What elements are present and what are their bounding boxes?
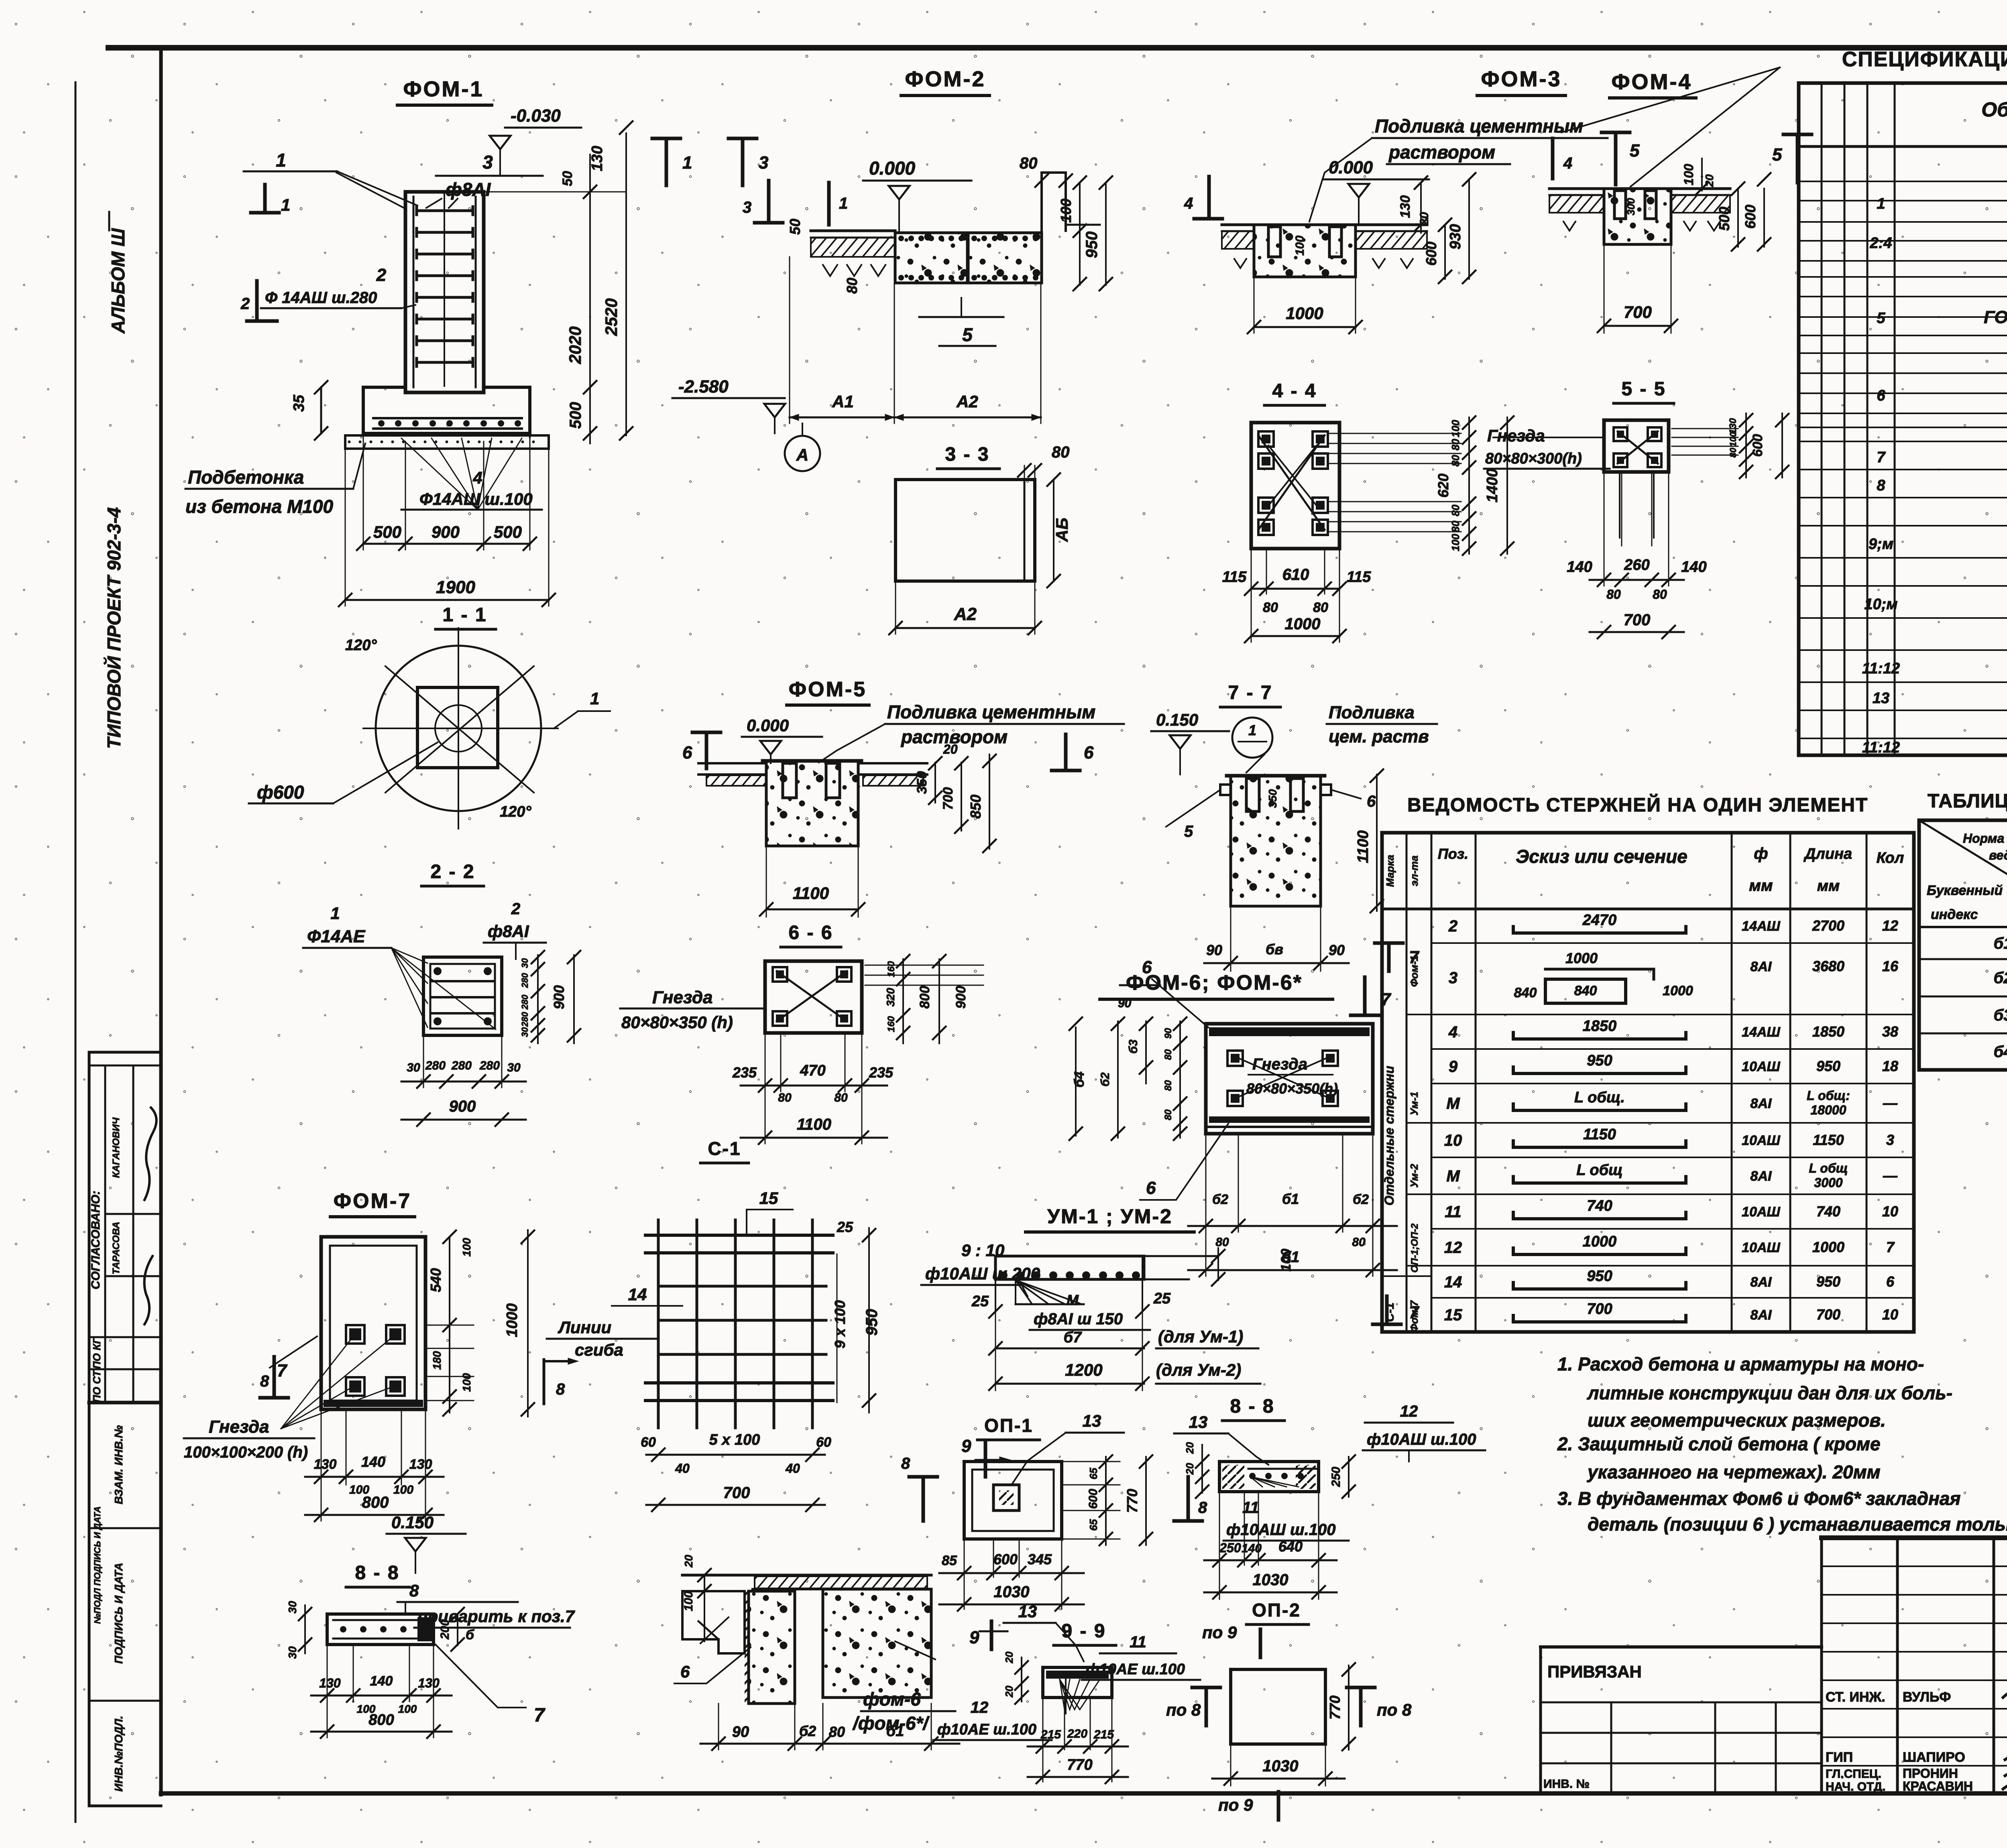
svg-text:6: 6 (682, 743, 692, 762)
svg-text:740: 740 (1587, 1197, 1612, 1214)
svg-text:90: 90 (1118, 997, 1132, 1010)
svg-text:-0.030: -0.030 (511, 106, 561, 126)
svg-text:1000: 1000 (1583, 1233, 1617, 1250)
svg-text:770: 770 (1124, 1489, 1140, 1513)
svg-text:ФОМ-5: ФОМ-5 (789, 678, 867, 701)
svg-text:2020: 2020 (566, 326, 584, 364)
svg-text:9 - 9: 9 - 9 (1061, 1620, 1106, 1642)
svg-text:3: 3 (759, 153, 768, 173)
svg-text:Обозначение: Обозначение (1981, 98, 2007, 121)
svg-text:1100: 1100 (793, 884, 829, 903)
svg-text:6: 6 (1367, 793, 1376, 810)
svg-text:КАГАНОВИЧ: КАГАНОВИЧ (111, 1117, 122, 1178)
svg-text:5: 5 (962, 324, 973, 345)
svg-text:Отдельные стержни: Отдельные стержни (1382, 1066, 1396, 1206)
svg-text:3: 3 (1449, 969, 1457, 987)
svg-text:ф10АШ ш.100: ф10АШ ш.100 (1367, 1431, 1476, 1448)
svg-text:900: 900 (551, 985, 567, 1009)
svg-text:2:4: 2:4 (1870, 235, 1892, 252)
svg-text:цем. раств: цем. раств (1329, 727, 1429, 746)
svg-text:ф10АШ ш.100: ф10АШ ш.100 (1226, 1521, 1335, 1539)
svg-text:фом-6: фом-6 (863, 1689, 921, 1710)
svg-text:215: 215 (1040, 1728, 1061, 1741)
svg-text:КРАСАВИН: КРАСАВИН (1903, 1779, 1973, 1793)
svg-text:3: 3 (1886, 1132, 1894, 1148)
svg-text:930: 930 (1447, 224, 1464, 249)
svg-text:С-1: С-1 (708, 1138, 741, 1159)
svg-text:Длина: Длина (1803, 846, 1852, 862)
svg-text:1850: 1850 (1583, 1018, 1617, 1035)
svg-text:15: 15 (1444, 1306, 1462, 1324)
svg-text:65: 65 (1087, 1519, 1099, 1531)
svg-text:L общ.: L общ. (1574, 1089, 1625, 1106)
svg-text:1000: 1000 (1285, 615, 1321, 633)
svg-text:100: 100 (1293, 236, 1307, 256)
svg-text:30: 30 (520, 1027, 530, 1037)
svg-text:950: 950 (1083, 232, 1101, 258)
svg-text:Гнезда: Гнезда (1487, 426, 1545, 445)
svg-text:10: 10 (1444, 1132, 1462, 1149)
svg-text:740: 740 (1816, 1203, 1840, 1220)
svg-text:УМ-1 ; УМ-2: УМ-1 ; УМ-2 (1047, 1205, 1172, 1228)
svg-text:220: 220 (1067, 1727, 1087, 1740)
svg-text:13: 13 (1873, 690, 1889, 707)
svg-text:б3: б3 (1993, 1006, 2007, 1024)
svg-text:5: 5 (1184, 823, 1193, 840)
svg-text:Гнезда: Гнезда (1252, 1055, 1307, 1073)
svg-text:Кол: Кол (1877, 850, 1904, 866)
svg-text:8АI: 8АI (1751, 1169, 1772, 1184)
svg-text:по 8: по 8 (1377, 1700, 1412, 1719)
svg-text:600: 600 (1423, 242, 1439, 266)
svg-text:25: 25 (971, 1293, 989, 1310)
svg-text:ГОСТ 8478 - 66: ГОСТ 8478 - 66 (1984, 307, 2007, 327)
svg-text:—: — (1883, 1167, 1898, 1184)
svg-text:25: 25 (837, 1219, 853, 1235)
svg-text:900: 900 (432, 522, 460, 541)
svg-text:260: 260 (1624, 557, 1649, 573)
svg-text:80×80×350(h): 80×80×350(h) (1246, 1080, 1338, 1097)
svg-text:4: 4 (472, 468, 482, 487)
svg-text:10АШ: 10АШ (1742, 1059, 1780, 1074)
svg-text:610: 610 (1282, 566, 1309, 583)
svg-text:ИНВ. №: ИНВ. № (1543, 1777, 1590, 1791)
svg-text:640: 640 (1278, 1538, 1303, 1555)
svg-text:индекс: индекс (1931, 907, 1978, 922)
svg-text:40: 40 (785, 1461, 800, 1476)
svg-text:100: 100 (1278, 1249, 1294, 1272)
svg-text:(для Ум-2): (для Ум-2) (1156, 1360, 1241, 1379)
svg-text:8: 8 (409, 1581, 419, 1600)
svg-text:ф8АI: ф8АI (488, 922, 529, 941)
svg-text:Ум-1: Ум-1 (1408, 1092, 1420, 1115)
svg-text:7: 7 (1409, 1303, 1420, 1322)
svg-text:10: 10 (1882, 1203, 1898, 1220)
svg-text:100: 100 (398, 1703, 417, 1715)
svg-text:100: 100 (1728, 432, 1738, 447)
svg-text:0.150: 0.150 (1156, 710, 1198, 729)
svg-text:90: 90 (1329, 942, 1345, 958)
svg-text:5 - 5: 5 - 5 (1621, 378, 1666, 400)
svg-text:ПРИВЯЗАН: ПРИВЯЗАН (1547, 1662, 1642, 1681)
svg-text:11: 11 (1445, 1203, 1461, 1221)
svg-text:3: 3 (743, 199, 751, 216)
svg-text:ФОМ-1: ФОМ-1 (403, 77, 484, 101)
svg-text:Буквенный: Буквенный (1927, 883, 2003, 898)
svg-text:б2: б2 (1993, 969, 2007, 987)
svg-text:950: 950 (1587, 1052, 1612, 1069)
svg-text:1: 1 (330, 904, 340, 923)
svg-text:Эскиз или сечение: Эскиз или сечение (1516, 846, 1687, 867)
svg-text:3680: 3680 (1812, 958, 1844, 974)
svg-text:300: 300 (1625, 198, 1637, 215)
svg-text:1150: 1150 (1583, 1126, 1616, 1143)
svg-text:(для Ум-1): (для Ум-1) (1158, 1327, 1243, 1346)
svg-text:85: 85 (942, 1553, 957, 1568)
svg-text:130: 130 (418, 1676, 440, 1690)
svg-text:130: 130 (409, 1457, 432, 1472)
svg-text:18: 18 (1882, 1058, 1898, 1074)
svg-text:7: 7 (277, 1361, 288, 1380)
svg-text:1: 1 (281, 195, 290, 214)
svg-text:б4: б4 (1072, 1071, 1087, 1088)
svg-text:80: 80 (829, 1724, 845, 1740)
svg-text:80: 80 (834, 1091, 848, 1104)
svg-text:1: 1 (839, 195, 848, 212)
svg-text:235: 235 (869, 1064, 894, 1081)
svg-text:7 - 7: 7 - 7 (1228, 682, 1272, 703)
svg-text:ф8АI ш 150: ф8АI ш 150 (1034, 1310, 1123, 1328)
svg-text:0.000: 0.000 (747, 716, 789, 735)
svg-text:60: 60 (641, 1435, 656, 1450)
svg-text:11:12: 11:12 (1862, 660, 1900, 677)
svg-text:Норма водоот-: Норма водоот- (1963, 831, 2007, 846)
svg-text:470: 470 (800, 1062, 825, 1079)
svg-text:620: 620 (1435, 474, 1451, 498)
svg-text:20: 20 (1003, 1685, 1015, 1698)
svg-text:100×100×200 (h): 100×100×200 (h) (184, 1443, 308, 1461)
svg-text:2: 2 (240, 295, 250, 313)
svg-text:8: 8 (260, 1372, 269, 1390)
svg-text:10АШ: 10АШ (1742, 1240, 1780, 1255)
svg-text:б2: б2 (1099, 1072, 1112, 1087)
svg-text:8 - 8: 8 - 8 (355, 1562, 399, 1584)
svg-text:из бетона М100: из бетона М100 (185, 496, 333, 517)
svg-text:14АШ: 14АШ (1742, 1025, 1780, 1040)
svg-text:200: 200 (438, 1619, 452, 1640)
svg-text:14: 14 (628, 1285, 647, 1304)
svg-text:600: 600 (1742, 205, 1759, 229)
svg-text:1: 1 (276, 150, 286, 171)
svg-text:4 - 4: 4 - 4 (1272, 380, 1317, 402)
svg-text:0.150: 0.150 (391, 1513, 434, 1532)
svg-text:140: 140 (1567, 559, 1592, 575)
svg-text:деталь (позиции 6 ) устанавлив: деталь (позиции 6 ) устанавливается толь… (1588, 1514, 2007, 1535)
svg-text:30: 30 (286, 1601, 299, 1614)
svg-text:ТАРАСОВА: ТАРАСОВА (111, 1222, 122, 1274)
svg-text:б3: б3 (1127, 1039, 1140, 1054)
svg-text:1030: 1030 (994, 1583, 1030, 1601)
svg-text:3 - 3: 3 - 3 (945, 444, 989, 465)
svg-text:СТ. ИНЖ.: СТ. ИНЖ. (1826, 1689, 1885, 1705)
svg-text:30: 30 (507, 1061, 521, 1074)
svg-text:15: 15 (759, 1189, 778, 1208)
svg-text:5 х 100: 5 х 100 (709, 1431, 760, 1448)
svg-text:140: 140 (1681, 559, 1706, 575)
svg-text:280: 280 (425, 1059, 446, 1072)
svg-text:16: 16 (1882, 958, 1899, 974)
svg-text:9: 9 (1449, 1058, 1458, 1075)
svg-text:б: б (466, 1627, 474, 1643)
svg-text:по 9: по 9 (1218, 1795, 1253, 1814)
svg-text:9: 9 (969, 1628, 979, 1647)
svg-text:ВЗАМ. ИНВ.№: ВЗАМ. ИНВ.№ (112, 1425, 125, 1504)
svg-text:80: 80 (1163, 1049, 1174, 1060)
svg-text:100: 100 (1449, 420, 1461, 437)
svg-text:7: 7 (534, 1705, 546, 1726)
svg-text:950: 950 (1587, 1268, 1612, 1285)
svg-text:500: 500 (567, 402, 584, 429)
svg-text:4: 4 (1563, 155, 1572, 172)
svg-text:L общ:: L общ: (1807, 1088, 1850, 1103)
svg-text:ф600: ф600 (257, 782, 304, 803)
svg-text:20: 20 (682, 1555, 695, 1568)
svg-text:800: 800 (362, 1494, 389, 1511)
svg-text:б4: б4 (1993, 1043, 2007, 1061)
svg-text:L общ: L общ (1576, 1162, 1622, 1179)
svg-text:2: 2 (1448, 917, 1457, 935)
svg-text:80: 80 (1163, 1109, 1174, 1120)
svg-text:30: 30 (520, 958, 530, 968)
svg-text:950: 950 (1816, 1058, 1840, 1074)
svg-text:ФОМ-4: ФОМ-4 (1611, 70, 1692, 94)
svg-text:Ф14АШ ш.100: Ф14АШ ш.100 (419, 490, 533, 508)
svg-text:115: 115 (1222, 569, 1247, 586)
svg-text:3. В фундаментах Фом6 и Фом6*: 3. В фундаментах Фом6 и Фом6* закладная (1557, 1488, 1961, 1509)
svg-text:80: 80 (778, 1091, 792, 1104)
svg-text:600: 600 (993, 1551, 1018, 1567)
svg-text:мм: мм (1749, 877, 1773, 895)
svg-text:20: 20 (943, 742, 958, 756)
svg-text:12: 12 (971, 1699, 989, 1716)
svg-text:10АШ: 10АШ (1742, 1204, 1780, 1220)
svg-text:Ф 14АШ ш.280: Ф 14АШ ш.280 (265, 289, 377, 307)
svg-text:100: 100 (393, 1483, 413, 1496)
svg-text:250: 250 (1219, 1541, 1241, 1555)
svg-text:Подливка цементным: Подливка цементным (887, 701, 1095, 722)
svg-text:160: 160 (886, 961, 897, 977)
svg-text:80: 80 (1606, 587, 1621, 602)
svg-text:мм: мм (1817, 878, 1840, 895)
svg-text:А: А (796, 445, 808, 464)
svg-text:700: 700 (1816, 1306, 1840, 1323)
svg-text:б1: б1 (886, 1723, 904, 1740)
svg-text:ГЛ.СПЕЦ.: ГЛ.СПЕЦ. (1826, 1767, 1881, 1781)
svg-text:0.000: 0.000 (869, 158, 916, 179)
svg-text:80: 80 (1313, 600, 1328, 615)
svg-text:80×80×350 (h): 80×80×350 (h) (621, 1013, 733, 1032)
svg-text:770: 770 (1067, 1757, 1092, 1773)
svg-text:540: 540 (427, 1268, 444, 1292)
svg-text:770: 770 (1327, 1696, 1343, 1720)
svg-text:б2: б2 (799, 1723, 816, 1739)
svg-text:Марка: Марка (1384, 855, 1396, 887)
svg-text:1000: 1000 (1565, 950, 1598, 966)
svg-text:ведения: ведения (1989, 848, 2007, 862)
svg-text:6: 6 (1146, 1178, 1156, 1198)
svg-text:М: М (1446, 1167, 1460, 1185)
svg-text:1 - 1: 1 - 1 (442, 604, 487, 626)
svg-text:850: 850 (967, 795, 984, 819)
svg-text:5: 5 (1772, 145, 1782, 165)
svg-text:90: 90 (1163, 1028, 1174, 1039)
svg-text:Ф14АЕ: Ф14АЕ (307, 927, 366, 946)
svg-text:9 х 100: 9 х 100 (832, 1300, 848, 1348)
svg-text:Ум-2: Ум-2 (1408, 1164, 1420, 1188)
svg-text:6: 6 (1877, 387, 1885, 404)
svg-text:ПО СТ: ПО СТ (91, 1370, 103, 1403)
svg-text:38: 38 (1882, 1023, 1898, 1040)
svg-text:7: 7 (1886, 1239, 1895, 1255)
svg-text:6: 6 (680, 1662, 690, 1681)
svg-text:5: 5 (1877, 310, 1885, 327)
svg-text:700: 700 (940, 787, 956, 810)
svg-text:Гнезда: Гнезда (209, 1417, 269, 1437)
svg-text:700: 700 (1587, 1301, 1612, 1317)
svg-text:2520: 2520 (602, 298, 621, 336)
svg-text:8АI: 8АI (1751, 1096, 1772, 1111)
svg-text:840: 840 (1574, 983, 1597, 998)
svg-text:115: 115 (1347, 569, 1371, 586)
svg-text:80: 80 (1449, 439, 1461, 450)
svg-text:500: 500 (373, 522, 401, 541)
svg-text:ФОМ-6; ФОМ-6*: ФОМ-6; ФОМ-6* (1126, 971, 1303, 994)
svg-text:8АI: 8АI (1751, 959, 1772, 974)
svg-text:6: 6 (1084, 743, 1094, 762)
svg-text:ВУЛЬФ: ВУЛЬФ (1903, 1689, 1951, 1705)
svg-text:1: 1 (590, 689, 599, 708)
svg-text:35: 35 (291, 394, 307, 412)
svg-text:Гнезда: Гнезда (652, 988, 713, 1007)
svg-text:80: 80 (1020, 155, 1038, 172)
svg-text:700: 700 (1624, 611, 1651, 629)
svg-text:СПЕЦИФИКАЦИЯ ЭЛЕМЕНТОВ МОНОЛ: СПЕЦИФИКАЦИЯ ЭЛЕМЕНТОВ МОНОЛИТНОЙ КОНСТР… (1842, 47, 2007, 71)
svg-text:215: 215 (1093, 1728, 1114, 1741)
svg-text:80×80×300(h): 80×80×300(h) (1485, 450, 1582, 467)
svg-text:1100: 1100 (797, 1116, 831, 1133)
svg-text:НАЧ. ОТД.: НАЧ. ОТД. (1826, 1780, 1885, 1793)
svg-text:А1: А1 (832, 392, 854, 411)
svg-text:40: 40 (675, 1461, 690, 1476)
svg-text:ф: ф (1754, 845, 1768, 862)
svg-text:4: 4 (1184, 195, 1193, 212)
svg-text:160: 160 (886, 1016, 897, 1032)
svg-text:Подливка: Подливка (1329, 703, 1415, 722)
svg-text:6: 6 (1142, 958, 1152, 977)
svg-text:80: 80 (1449, 455, 1461, 466)
svg-text:345: 345 (1028, 1551, 1052, 1567)
svg-text:бв: бв (1266, 941, 1283, 958)
svg-text:литные конструкции дан для их: литные конструкции дан для их боль- (1587, 1382, 1952, 1403)
svg-text:950: 950 (1816, 1273, 1840, 1290)
svg-text:900: 900 (449, 1098, 476, 1115)
svg-text:120°: 120° (500, 803, 531, 820)
svg-text:80: 80 (1653, 587, 1667, 602)
svg-text:1000: 1000 (1812, 1239, 1844, 1255)
svg-text:2: 2 (511, 900, 520, 918)
svg-text:7: 7 (1381, 990, 1392, 1009)
svg-text:80: 80 (1163, 1080, 1174, 1091)
svg-text:100: 100 (1449, 534, 1461, 551)
svg-text:11: 11 (1130, 1633, 1146, 1651)
svg-text:ШАПИРО: ШАПИРО (1903, 1750, 1965, 1765)
svg-text:№ПОДЛ ПОДПИСЬ И ДАТА: №ПОДЛ ПОДПИСЬ И ДАТА (92, 1506, 102, 1624)
svg-text:ф10АЕ ш.100: ф10АЕ ш.100 (937, 1721, 1036, 1738)
svg-text:ПРОНИН: ПРОНИН (1903, 1766, 1958, 1781)
svg-text:180: 180 (431, 1351, 443, 1370)
svg-text:20: 20 (1003, 1651, 1015, 1663)
svg-text:7: 7 (1877, 449, 1886, 466)
svg-text:500: 500 (1716, 207, 1732, 231)
svg-text:ПО КГ: ПО КГ (91, 1337, 103, 1369)
svg-text:130: 130 (589, 146, 606, 171)
svg-text:Линии: Линии (558, 1318, 611, 1337)
svg-text:10;м: 10;м (1864, 596, 1897, 613)
svg-text:13: 13 (1018, 1602, 1037, 1621)
svg-text:9: 9 (961, 1436, 971, 1456)
svg-text:20: 20 (1703, 174, 1716, 187)
svg-text:50: 50 (560, 171, 575, 186)
svg-text:60: 60 (816, 1435, 831, 1450)
svg-text:9;м: 9;м (1869, 536, 1893, 553)
svg-text:90: 90 (1206, 942, 1222, 958)
svg-text:СОГЛАСОВАНО:: СОГЛАСОВАНО: (89, 1191, 102, 1289)
svg-text:ФОМ-7: ФОМ-7 (334, 1189, 411, 1213)
svg-text:80: 80 (1449, 504, 1461, 516)
svg-text:140: 140 (361, 1454, 385, 1470)
svg-text:8: 8 (1877, 477, 1885, 494)
svg-text:ОП-2: ОП-2 (1252, 1600, 1301, 1620)
svg-text:100: 100 (1058, 199, 1074, 223)
svg-text:1. Расход бетона и арматуры н: 1. Расход бетона и арматуры на моно- (1557, 1354, 1924, 1374)
svg-text:900: 900 (953, 986, 969, 1009)
svg-text:М: М (1446, 1095, 1460, 1112)
svg-text:235: 235 (732, 1064, 757, 1081)
svg-text:11:12: 11:12 (1862, 739, 1900, 756)
svg-text:4: 4 (1448, 1023, 1457, 1041)
svg-text:6: 6 (1886, 1273, 1895, 1290)
svg-text:А2: А2 (954, 604, 977, 624)
svg-text:2: 2 (376, 265, 387, 285)
svg-text:20: 20 (1184, 1442, 1196, 1454)
svg-text:2700: 2700 (1812, 917, 1844, 934)
svg-text:12: 12 (1400, 1403, 1418, 1420)
svg-text:ТАБЛИЦА ГЕОМЕТРИЧЕСКИЙ РАЗМЕРО: ТАБЛИЦА ГЕОМЕТРИЧЕСКИЙ РАЗМЕРОВ ДЛЯ ФОМ-… (1928, 790, 2007, 812)
svg-text:ОП-1: ОП-1 (984, 1415, 1033, 1436)
svg-text:1: 1 (682, 153, 692, 173)
svg-text:ПОДПИСЬ И ДАТА: ПОДПИСЬ И ДАТА (112, 1563, 125, 1664)
svg-text:по 9: по 9 (1202, 1623, 1237, 1642)
svg-text:25: 25 (1153, 1290, 1171, 1307)
svg-text:130: 130 (319, 1676, 341, 1690)
svg-text:б2: б2 (1353, 1192, 1369, 1207)
svg-text:320: 320 (884, 988, 897, 1006)
svg-text:80: 80 (1352, 1236, 1366, 1249)
svg-text:8АI: 8АI (1751, 1307, 1772, 1323)
svg-text:1: 1 (1248, 722, 1256, 738)
svg-text:140: 140 (370, 1673, 393, 1689)
svg-text:Подливка цементным: Подливка цементным (1375, 116, 1583, 136)
